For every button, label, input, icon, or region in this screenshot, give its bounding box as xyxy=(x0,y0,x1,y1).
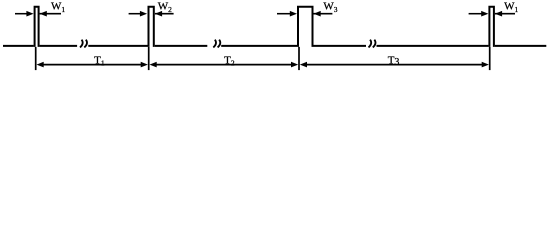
svg-text:T2: T2 xyxy=(224,54,235,67)
svg-text:W1: W1 xyxy=(504,1,518,14)
svg-text:T1: T1 xyxy=(94,54,105,67)
svg-text:T3: T3 xyxy=(388,54,400,68)
svg-text:W2: W2 xyxy=(158,1,172,14)
svg-text:W1: W1 xyxy=(51,1,65,14)
svg-text:W3: W3 xyxy=(323,1,337,14)
